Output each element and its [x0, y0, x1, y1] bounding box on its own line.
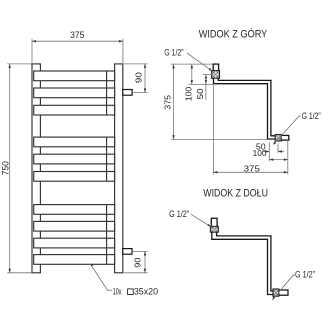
top view leader top-left [187, 53, 212, 71]
dim 90 top right: extension lines [124, 63, 148, 65]
top view ext line y=139.4 [171, 138, 267, 140]
right collector [115, 64, 123, 273]
dim 750 left: extension lines [7, 63, 31, 65]
top view ext vertical x=213.4 [212, 85, 214, 175]
svg-text:G 1/2”: G 1/2” [295, 270, 315, 280]
tube 2 (35x20 profile) [34, 88, 115, 98]
tube 9 (35x20 profile) [34, 238, 115, 248]
svg-text:100: 100 [183, 87, 193, 102]
tube end weld line group 2 [106, 137, 108, 181]
tube end weld line group 3 [106, 205, 108, 265]
svg-text:375: 375 [244, 163, 261, 173]
svg-text:90: 90 [133, 257, 142, 268]
tube 5 (35x20 profile) [34, 154, 115, 164]
tube 8 (35x20 profile) [34, 221, 115, 231]
top view left nut G1/2 [212, 71, 220, 79]
tube end weld line group 1 [106, 71, 108, 115]
svg-text:100: 100 [253, 148, 267, 158]
top view right nut G1/2 [275, 135, 281, 142]
bottom view leader left [191, 214, 210, 226]
dim 750 left: dimension line [9, 64, 11, 273]
tube 4 (35x20 profile) [34, 137, 115, 147]
top view ext vertical x=269.3 [268, 142, 270, 162]
svg-text:50: 50 [195, 88, 205, 99]
dim 90 bottom right: dimension line [144, 252, 146, 273]
dim 375 top: extension lines [31, 39, 33, 64]
dim 375 top: dimension line [32, 40, 123, 42]
svg-text:WIDOK Z GÓRY: WIDOK Z GÓRY [199, 28, 268, 41]
bottom view right nut G1/2 [273, 289, 279, 296]
bottom view pipe outline [212, 231, 274, 294]
svg-text:G 1/2”: G 1/2” [164, 48, 183, 58]
top view end stub [280, 135, 289, 140]
top view dim 375 horizontal [213, 171, 287, 173]
svg-text:375: 375 [70, 30, 84, 40]
tube 7 (35x20 profile) [34, 205, 115, 215]
top view ext vertical x=287.8 [287, 141, 289, 175]
top view ext vertical x=279.3 [277, 143, 279, 153]
tube 3 (35x20 profile) [34, 105, 115, 115]
top view dim 100 vertical [191, 64, 193, 84]
svg-text:750: 750 [1, 161, 11, 175]
dim 90 top right: dimension line [144, 64, 146, 93]
left collector [32, 64, 40, 273]
top side connection stub [123, 90, 132, 96]
bottom side connection stub [123, 249, 132, 255]
svg-text:G 1/2”: G 1/2” [302, 111, 321, 121]
top view dim 100 horizontal [269, 159, 288, 161]
tube 10 (35x20 profile) [34, 255, 115, 265]
svg-text:10x: 10x [113, 287, 122, 297]
tube 6 (35x20 profile) [34, 172, 115, 182]
svg-text:375: 375 [163, 95, 173, 110]
bottom view top stub [211, 218, 217, 228]
leader line for tube spec [90, 264, 112, 290]
bottom view end stub [278, 290, 288, 295]
svg-text:WIDOK Z DOŁU: WIDOK Z DOŁU [203, 187, 268, 199]
top view ext line pipe bottom y=84.4 [189, 83, 214, 85]
top view ext line nut center y=74.6 [203, 74, 212, 76]
bottom view leader right [272, 275, 295, 300]
top view dim 50 horizontal [263, 151, 269, 153]
svg-text:90: 90 [135, 72, 144, 84]
top view dim 375 vertical [173, 64, 175, 139]
top view leader right [273, 116, 300, 144]
top view ext line y=64.1 [171, 63, 213, 65]
top view dim 50 vertical [205, 75, 207, 100]
dim 90 bottom right: extension lines [133, 251, 147, 253]
top view top stub [213, 64, 218, 72]
tube 1 (35x20 profile) [34, 71, 115, 81]
svg-text:35x20: 35x20 [134, 287, 158, 297]
svg-text:G 1/2”: G 1/2” [169, 209, 189, 219]
top view pipe outline [214, 77, 277, 139]
bottom view left nut G1/2 [210, 226, 218, 232]
